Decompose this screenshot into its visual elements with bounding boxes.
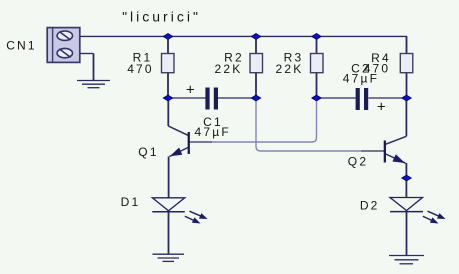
svg-text:CN1: CN1 (6, 39, 37, 53)
svg-text:+: + (186, 81, 195, 98)
svg-text:47µF: 47µF (343, 71, 379, 85)
svg-text:470: 470 (127, 62, 154, 76)
svg-text:47µF: 47µF (194, 125, 230, 139)
svg-text:Q1: Q1 (138, 145, 158, 159)
svg-text:22K: 22K (276, 62, 304, 76)
svg-text:Q2: Q2 (348, 155, 368, 169)
svg-text:22K: 22K (215, 62, 243, 76)
svg-text:D1: D1 (121, 195, 141, 209)
svg-text:D2: D2 (360, 198, 380, 212)
svg-text:"licurici": "licurici" (122, 9, 201, 25)
svg-text:+: + (377, 99, 386, 116)
